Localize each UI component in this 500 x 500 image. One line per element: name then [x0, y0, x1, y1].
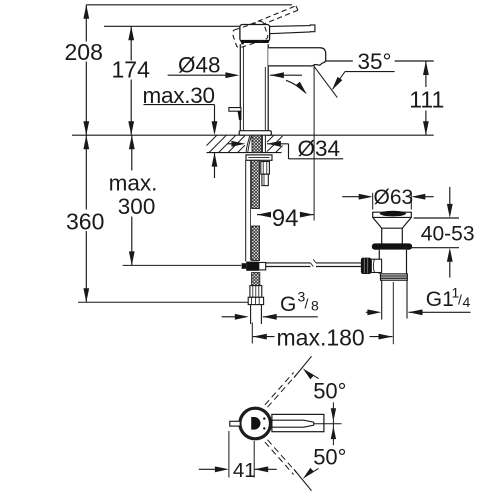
- svg-text:Ø63: Ø63: [374, 186, 414, 209]
- svg-text:94: 94: [272, 205, 299, 232]
- svg-text:max.: max.: [109, 171, 158, 196]
- svg-text:Ø48: Ø48: [178, 53, 221, 78]
- svg-text:G1: G1: [426, 288, 454, 311]
- svg-text:111: 111: [409, 86, 444, 112]
- svg-text:208: 208: [65, 39, 103, 65]
- svg-text:/: /: [458, 292, 462, 308]
- svg-text:35°: 35°: [358, 49, 392, 74]
- svg-text:8: 8: [311, 298, 319, 314]
- svg-text:Ø34: Ø34: [298, 136, 341, 161]
- svg-text:300: 300: [118, 194, 156, 219]
- svg-text:41: 41: [233, 459, 256, 482]
- svg-text:4: 4: [463, 294, 471, 310]
- svg-text:G: G: [280, 293, 296, 316]
- svg-text:50°: 50°: [313, 445, 346, 470]
- svg-text:50°: 50°: [313, 378, 346, 403]
- svg-text:max.180: max.180: [277, 324, 365, 350]
- svg-text:360: 360: [66, 209, 104, 235]
- svg-text:/: /: [305, 296, 309, 312]
- svg-text:174: 174: [112, 57, 151, 83]
- svg-text:40-53: 40-53: [421, 222, 475, 245]
